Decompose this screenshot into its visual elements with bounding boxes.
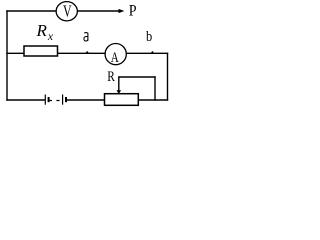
svg-text:P: P <box>129 3 137 20</box>
svg-text:R: R <box>36 21 48 40</box>
wire right vertical <box>167 53 169 100</box>
svg-text:b: b <box>146 29 152 45</box>
battery short plate 1 <box>48 97 50 102</box>
arrow to P <box>119 9 125 13</box>
svg-text:x: x <box>47 31 54 43</box>
battery dash 2 <box>56 100 59 102</box>
wire top-left horizontal <box>7 10 56 12</box>
ammeter U2 circle <box>105 44 126 65</box>
wire resistor to ammeter <box>58 52 105 54</box>
svg-text:R: R <box>107 69 115 85</box>
battery long plate 2 <box>62 95 64 105</box>
node a tick <box>85 51 89 53</box>
wire voltmeter to arrow <box>78 10 119 12</box>
voltmeter U1 circle <box>56 2 77 21</box>
wire bottom left <box>7 99 45 101</box>
battery long plate 1 <box>44 95 46 105</box>
rheostat slider arrow stem <box>118 77 120 91</box>
rheostat R box <box>105 94 139 106</box>
svg-text:V: V <box>63 1 72 20</box>
wire slider horizontal <box>119 76 155 78</box>
rheostat slider arrowhead <box>117 90 122 94</box>
label a <box>84 33 88 41</box>
wire left vertical <box>6 11 8 100</box>
wire battery to rheostat <box>67 99 105 101</box>
battery short plate 2 <box>65 97 67 102</box>
battery dash 1 <box>50 100 52 102</box>
resistor Rx box <box>24 46 58 56</box>
wire slider right vertical <box>154 77 156 100</box>
wire middle left <box>7 52 24 54</box>
wire rheostat to right <box>138 99 167 101</box>
node b tick <box>151 51 155 53</box>
battery BT1 <box>45 95 66 105</box>
svg-text:A: A <box>111 50 119 66</box>
wire ammeter to right corner <box>127 52 168 54</box>
